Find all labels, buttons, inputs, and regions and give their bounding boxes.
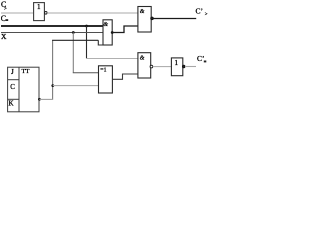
svg-text:&: & bbox=[140, 56, 145, 62]
junction dot C_eq branch bbox=[85, 25, 88, 28]
and-gate U4 box bbox=[138, 53, 151, 78]
svg-text:>: > bbox=[4, 7, 7, 12]
and-gate U2 output bubble bbox=[151, 17, 154, 20]
wire Q branch to XOR lower input bbox=[53, 85, 99, 87]
wire inverter output to AND2 upper input bbox=[47, 12, 138, 14]
svg-text:&: & bbox=[103, 22, 108, 28]
svg-text:C: C bbox=[10, 83, 15, 91]
svg-text:J: J bbox=[11, 68, 14, 76]
svg-text:>: > bbox=[205, 12, 208, 17]
junction dot AND1 output bbox=[111, 31, 114, 34]
svg-text:=1: =1 bbox=[100, 68, 106, 74]
svg-text:C’: C’ bbox=[197, 54, 205, 63]
inverter DD2 box bbox=[171, 58, 182, 76]
junction dot Q feedback branch bbox=[51, 84, 54, 87]
xor-gate U3 box bbox=[99, 66, 113, 93]
node C_gt input label bbox=[1, 0, 7, 12]
wire U4 output to inverter DD2 bbox=[153, 66, 172, 68]
svg-text:X: X bbox=[1, 32, 7, 41]
svg-text:TT: TT bbox=[22, 68, 30, 75]
svg-text:K: K bbox=[9, 100, 14, 108]
wire XOR output jog up to AND3 lower input bbox=[112, 74, 137, 79]
and-gate U2 box bbox=[138, 7, 151, 33]
svg-text:&: & bbox=[140, 9, 145, 15]
svg-text:1: 1 bbox=[175, 59, 179, 67]
junction dot X branch bbox=[72, 31, 75, 34]
and-gate U1 box bbox=[103, 20, 112, 45]
wire X branch down then right to XOR upper input bbox=[72, 33, 74, 73]
inverter DD1 box bbox=[34, 3, 45, 21]
flip-flop TT box bbox=[8, 67, 39, 112]
wire Q feedback step into AND1 bottom bbox=[98, 40, 103, 45]
wire Q output to feedback riser bbox=[39, 98, 53, 100]
wire U2 output to C_gt output bbox=[153, 18, 196, 20]
wire C_eq input line to AND1 bbox=[1, 25, 103, 27]
svg-text:C: C bbox=[1, 14, 6, 23]
wire AND1 output jog up to AND2 lower input bbox=[112, 26, 138, 33]
wire Q feedback riser to AND1 bottom input bbox=[52, 40, 54, 99]
inverter DD2 output bubble bbox=[182, 65, 185, 68]
node C_gt output label bbox=[196, 7, 208, 18]
wire C_eq branch down then right to AND3 upper input bbox=[86, 26, 88, 59]
node C_eq input label bbox=[1, 14, 8, 23]
and-gate U4 output bubble bbox=[150, 65, 153, 68]
svg-text:1: 1 bbox=[37, 3, 41, 11]
junction dot Q output on TT edge bbox=[38, 98, 41, 101]
wire DD2 output to C_eq output bbox=[185, 66, 196, 68]
node C_eq output label bbox=[197, 54, 206, 63]
inverter DD1 output bubble bbox=[45, 12, 48, 15]
svg-text:C’: C’ bbox=[196, 7, 204, 16]
wire X input line to AND1 bbox=[1, 32, 103, 34]
wire C_gt input line to inverter bbox=[1, 12, 33, 14]
